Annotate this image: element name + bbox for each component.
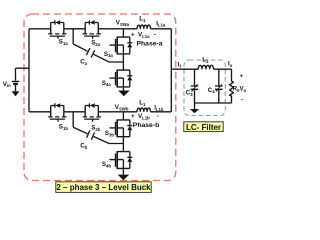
ground phase-b [118, 175, 130, 181]
transistor S2b [83, 103, 101, 121]
svg-text:LC- Filter: LC- Filter [186, 123, 221, 132]
transistor S4a [110, 62, 133, 87]
transistor S3b [110, 112, 133, 137]
wire S4b source to ground [122, 168, 124, 174]
label 2-phase 3-Level Buck [56, 182, 151, 193]
wire filter input [171, 68, 231, 70]
wire S4a source to ground [122, 87, 124, 91]
wire S3b source to midpoint junction [109, 137, 123, 144]
ground at filter [190, 109, 199, 113]
ground at battery [12, 91, 20, 96]
capacitor Cb flying [73, 112, 109, 144]
transistor S1a [48, 20, 66, 38]
inductor L1 phase-a [137, 25, 151, 29]
dashed boundary of LC filter block [184, 60, 225, 116]
inductor L1 phase-b [137, 108, 151, 112]
battery Vin [12, 68, 20, 91]
transistor S1b [48, 103, 66, 121]
transistor S2a [83, 20, 101, 38]
wire phase-a top rail [29, 28, 171, 30]
svg-text:-: - [157, 113, 159, 120]
resistor R0 load [230, 69, 234, 103]
dashed boundary of 2-phase 3-level buck block [24, 14, 176, 181]
svg-text:Phase-a: Phase-a [137, 40, 163, 47]
wire phase-b top rail [29, 111, 171, 113]
inductor L2 [198, 65, 213, 69]
capacitor C4 [215, 69, 223, 103]
svg-text:-: - [154, 31, 156, 38]
svg-text:+: + [240, 74, 244, 80]
capacitor C3 [191, 69, 199, 109]
wire battery to rail [16, 67, 30, 69]
wire right output rail [170, 29, 172, 112]
svg-text:+: + [131, 32, 135, 39]
wire left input rail [28, 29, 30, 112]
transistor S3a [110, 29, 133, 54]
ground phase-a [118, 91, 130, 97]
transistor S4b [110, 144, 133, 169]
svg-text:2 – phase 3 – Level Buck: 2 – phase 3 – Level Buck [56, 183, 151, 192]
wire filter bottom rail [195, 102, 232, 104]
capacitor Ca flying [73, 29, 109, 62]
svg-text:Phase-b: Phase-b [133, 122, 159, 129]
svg-text:+: + [131, 113, 135, 120]
label LC-Filter [184, 122, 223, 132]
svg-text:-: - [241, 97, 243, 104]
wire S3a source to midpoint junction [109, 54, 123, 62]
